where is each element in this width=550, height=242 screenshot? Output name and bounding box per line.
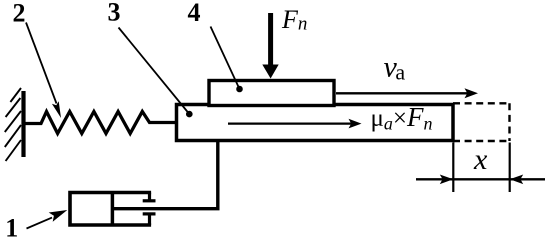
leader line 4 xyxy=(211,27,240,90)
force Fn arrowhead xyxy=(262,65,278,79)
wall hatching xyxy=(5,88,21,161)
svg-text:2: 2 xyxy=(13,0,26,28)
damper gland bar top xyxy=(143,199,156,202)
damper piston xyxy=(111,193,115,226)
svg-text:μa×Fn: μa×Fn xyxy=(371,102,433,134)
leader arrowhead 2 xyxy=(52,101,61,118)
leader dot 4 xyxy=(236,86,243,93)
phantom displaced box bottom dashed xyxy=(453,140,510,142)
spring 2 xyxy=(26,112,177,134)
leader line 2 xyxy=(26,23,57,104)
dimension extension line right xyxy=(509,143,511,193)
svg-text:4: 4 xyxy=(188,0,201,27)
phantom displaced box right dashed xyxy=(508,103,510,141)
svg-text:Fn: Fn xyxy=(281,5,307,35)
force Fn arrow shaft xyxy=(268,13,273,67)
svg-text:va: va xyxy=(384,51,406,85)
leader dot 3 xyxy=(186,111,193,118)
damper gland bar bottom xyxy=(143,212,156,215)
leader line 3 xyxy=(119,28,190,115)
wall xyxy=(21,91,25,157)
dimension extension line left xyxy=(452,143,454,193)
svg-text:1: 1 xyxy=(5,214,18,242)
damper gland stub top xyxy=(148,193,151,201)
block 3 (slider) xyxy=(177,105,454,141)
phantom displaced box top dashed xyxy=(453,102,510,104)
friction force arrow xyxy=(228,122,353,124)
damper 1 cylinder xyxy=(70,193,151,226)
friction force arrowhead xyxy=(349,119,362,129)
velocity va arrow xyxy=(336,92,470,94)
leader arrowhead 1 xyxy=(49,210,68,222)
dimension line x xyxy=(416,178,545,180)
svg-text:x: x xyxy=(473,143,488,176)
block 4 (upper pad) xyxy=(209,81,334,106)
damper gland stub bottom xyxy=(148,214,151,225)
leader line 1 xyxy=(27,218,53,229)
svg-text:3: 3 xyxy=(108,0,121,26)
connecting rod from damper to block xyxy=(112,138,217,209)
dimension arrowhead right xyxy=(510,175,524,185)
dimension arrowhead left xyxy=(440,175,454,185)
velocity va arrowhead xyxy=(465,88,479,98)
